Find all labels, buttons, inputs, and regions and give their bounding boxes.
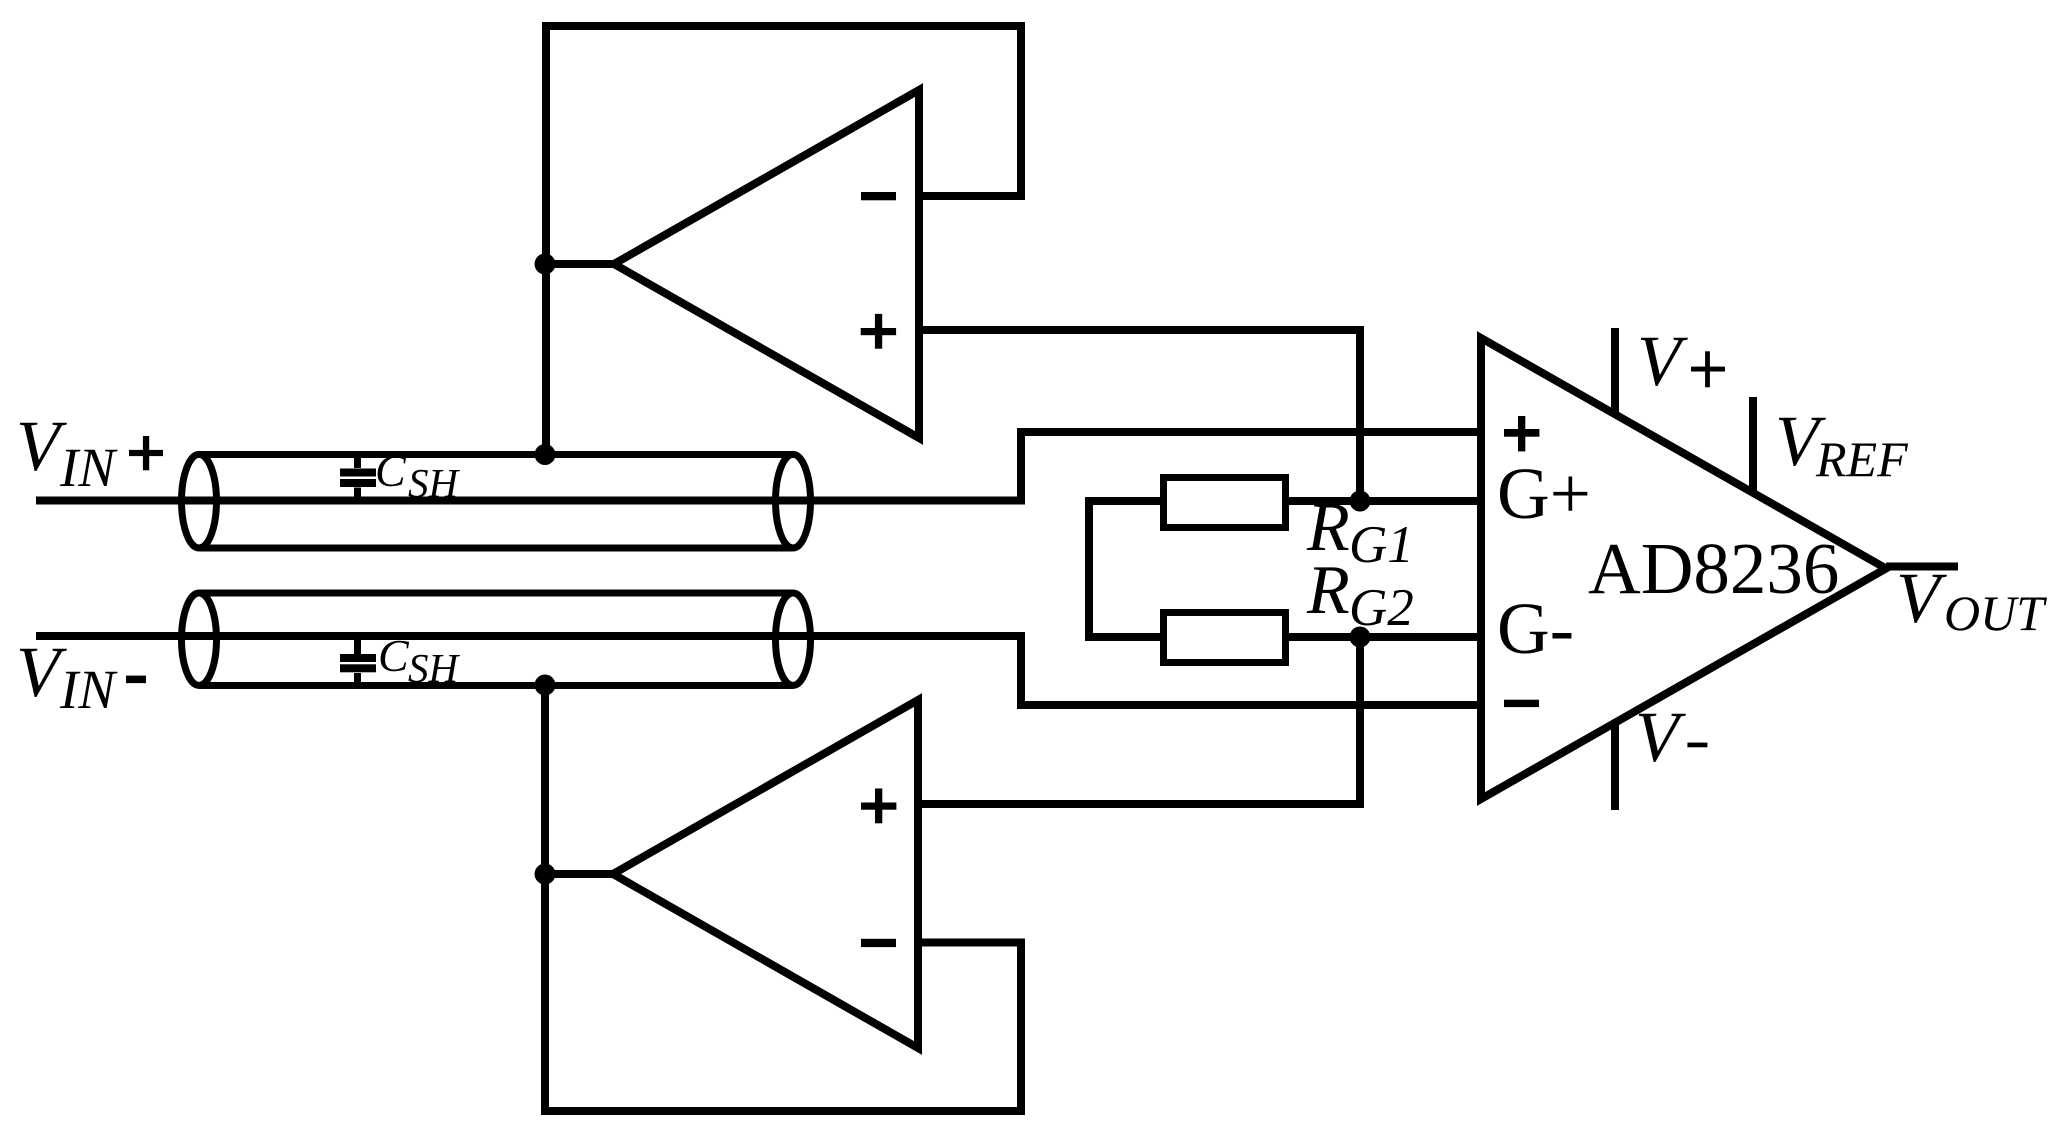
svg-text:SH: SH <box>408 460 461 506</box>
svg-text:G-: G- <box>1497 588 1574 669</box>
svg-text:G1: G1 <box>1349 516 1414 574</box>
svg-text:C: C <box>378 630 410 681</box>
svg-text:REF: REF <box>1815 431 1908 487</box>
svg-text:V: V <box>1635 697 1686 777</box>
svg-text:V: V <box>1896 558 1947 638</box>
svg-text:V: V <box>1637 321 1688 401</box>
svg-text:SH: SH <box>408 645 461 691</box>
svg-text:AD8236: AD8236 <box>1588 528 1839 609</box>
svg-text:C: C <box>375 445 407 496</box>
svg-text:IN: IN <box>59 659 118 720</box>
svg-text:R: R <box>1306 552 1350 629</box>
svg-text:G2: G2 <box>1349 579 1414 637</box>
svg-text:OUT: OUT <box>1944 585 2047 641</box>
svg-text:G+: G+ <box>1497 453 1591 534</box>
svg-text:IN: IN <box>59 437 118 498</box>
